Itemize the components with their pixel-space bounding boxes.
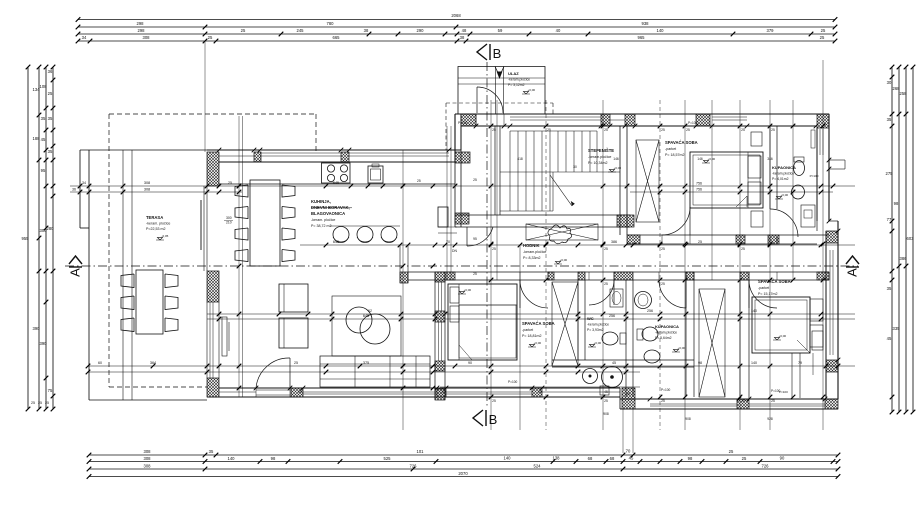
svg-text:379: 379	[767, 28, 775, 33]
bathroom2 door arc	[658, 272, 660, 280]
svg-text:390: 390	[33, 326, 41, 331]
svg-text:A: A	[845, 268, 860, 277]
north wall pier hatched	[696, 114, 710, 126]
svg-text:25: 25	[821, 28, 826, 33]
svg-text:95: 95	[41, 168, 46, 173]
svg-text:386: 386	[611, 240, 617, 244]
svg-text:938: 938	[642, 21, 650, 26]
laundry: big circle	[602, 367, 623, 388]
plant scribble	[548, 225, 572, 244]
svg-text:25: 25	[729, 449, 734, 454]
svg-text:35: 35	[887, 286, 892, 291]
svg-text:59: 59	[498, 28, 503, 33]
svg-text:-parket: -parket	[665, 147, 676, 151]
interior dim chain y319	[207, 318, 855, 320]
svg-text:P=22,53 m2: P=22,53 m2	[146, 227, 165, 231]
svg-text:25: 25	[45, 401, 49, 405]
svg-text:38: 38	[364, 28, 369, 33]
svg-text:140: 140	[751, 361, 757, 365]
svg-text:45: 45	[41, 137, 46, 142]
svg-text:25: 25	[742, 456, 747, 461]
bedroom3 closet wall	[791, 353, 793, 398]
section line B-B	[486, 62, 488, 408]
entrance door frame lines	[495, 67, 497, 115]
coffee table circles	[346, 307, 372, 333]
svg-text:25: 25	[417, 179, 421, 183]
rug	[332, 296, 401, 356]
svg-text:P= 10,34m2: P= 10,34m2	[588, 161, 607, 165]
laundry: square	[600, 386, 609, 395]
svg-text:524: 524	[534, 463, 542, 468]
south-east wall outer	[620, 408, 838, 410]
east wall pier hatched	[826, 231, 838, 243]
svg-text:25: 25	[661, 247, 665, 251]
svg-text:-keram.pločice: -keram.pločice	[772, 172, 794, 176]
svg-text:298: 298	[137, 21, 145, 26]
kitchen north wall inner	[219, 161, 455, 163]
TV panel	[222, 317, 227, 356]
south wall inner	[219, 387, 620, 389]
laundry: washing machine	[583, 369, 598, 384]
WC/bath south wall	[552, 359, 694, 361]
svg-text:+0,00: +0,00	[464, 288, 472, 292]
svg-text:308: 308	[144, 463, 152, 468]
svg-text:25: 25	[492, 247, 496, 251]
north wall pier hatched	[625, 114, 635, 126]
svg-text:KUPAONICA: KUPAONICA	[772, 165, 796, 170]
svg-text:25: 25	[661, 128, 665, 132]
svg-text:36: 36	[48, 69, 53, 74]
svg-text:-keram.pločice: -keram.pločice	[587, 323, 609, 327]
svg-text:335: 335	[893, 326, 901, 331]
living level mark	[458, 291, 466, 294]
bedroom3 bed	[752, 297, 810, 353]
svg-text:955: 955	[22, 236, 30, 241]
entrance canopy outline	[458, 67, 545, 115]
svg-text:25: 25	[228, 181, 232, 185]
west wall pier hatched	[207, 271, 219, 302]
svg-text:-parket: -parket	[758, 286, 769, 290]
entrance door arc	[477, 87, 503, 113]
south wall pier hatched	[437, 388, 446, 397]
bathroomTR door arc	[770, 209, 798, 237]
ULAZ level mark	[522, 91, 530, 94]
dining chair left	[235, 250, 248, 262]
svg-text:146: 146	[697, 157, 703, 161]
kitchen tall cabinet	[438, 207, 448, 227]
svg-text:P=100: P=100	[458, 121, 468, 125]
south wall pier hatched	[291, 388, 303, 397]
shower TR	[801, 205, 815, 227]
svg-text:25: 25	[31, 401, 35, 405]
svg-text:256: 256	[647, 309, 653, 313]
terrace chair	[121, 318, 134, 332]
svg-text:P= 38,72 m2: P= 38,72 m2	[311, 224, 331, 228]
svg-text:-keram.pločice: -keram.pločice	[508, 78, 530, 82]
svg-text:60: 60	[98, 361, 102, 365]
svg-text:+0,00: +0,00	[678, 346, 686, 350]
svg-text:280: 280	[47, 226, 55, 231]
svg-text:+0,00: +0,00	[534, 341, 542, 345]
svg-text:665: 665	[333, 35, 341, 40]
svg-text:25: 25	[604, 128, 608, 132]
svg-text:101: 101	[417, 449, 425, 454]
shaft X-braced (bedroom1/WC)	[552, 282, 578, 366]
svg-text:603: 603	[907, 236, 915, 241]
svg-text:25: 25	[547, 128, 551, 132]
svg-text:+0,00: +0,00	[781, 193, 789, 197]
svg-text:77: 77	[887, 217, 892, 222]
svg-text:-keram.pločice: -keram.pločice	[588, 155, 611, 159]
bottom dimension chain lines	[89, 454, 838, 456]
bedroom1 west wall window lines	[438, 282, 440, 311]
svg-text:P= 18,81m2: P= 18,81m2	[522, 334, 541, 338]
sofa	[320, 356, 430, 387]
terrace level mark	[156, 237, 164, 240]
svg-text:25: 25	[473, 272, 477, 276]
entrance arrow	[495, 67, 504, 77]
armchair 1	[279, 284, 308, 312]
svg-text:48: 48	[462, 28, 467, 33]
section marker A right	[846, 256, 859, 267]
north wall corner pier hatched	[817, 114, 829, 128]
bedroomTR door opening	[661, 235, 663, 244]
svg-text:308: 308	[144, 188, 150, 192]
shaft X-braced (bathroom/bedroom3)	[699, 289, 725, 397]
svg-text:-parket: -parket	[522, 328, 533, 332]
svg-text:95: 95	[473, 237, 477, 241]
stair block west wall	[454, 126, 456, 227]
west wall window	[206, 302, 208, 378]
svg-text:TERASA: TERASA	[146, 215, 163, 220]
svg-text:25: 25	[626, 392, 630, 396]
svg-text:308: 308	[143, 35, 151, 40]
sink TR	[792, 185, 805, 199]
svg-text:275: 275	[886, 171, 894, 176]
svg-text:25: 25	[604, 282, 608, 286]
svg-text:25: 25	[661, 399, 665, 403]
svg-text:140: 140	[228, 456, 236, 461]
step wall to north wall	[454, 114, 456, 162]
svg-text:+0,00: +0,00	[560, 258, 568, 262]
svg-text:P= 8,33m2: P= 8,33m2	[523, 256, 540, 260]
svg-text:25: 25	[741, 128, 745, 132]
south-east wall inner	[620, 398, 838, 400]
living room door arc	[256, 358, 290, 388]
svg-text:25: 25	[741, 399, 745, 403]
east wall inner lower	[825, 231, 827, 399]
left dimension chain lines	[27, 67, 29, 409]
dining chair left	[235, 185, 248, 197]
svg-text:2070: 2070	[458, 471, 468, 476]
svg-text:726: 726	[762, 463, 770, 468]
svg-text:35: 35	[209, 449, 214, 454]
svg-text:780: 780	[327, 21, 335, 26]
svg-text:-keram.pločice: -keram.pločice	[655, 331, 677, 335]
north wall pier hatched	[461, 114, 476, 126]
kitchen sink	[368, 166, 383, 183]
stair room east wall	[619, 126, 621, 235]
svg-text:98: 98	[894, 201, 899, 206]
svg-text:-keram. pločice: -keram. pločice	[311, 218, 335, 222]
entrance canopy lines	[458, 77, 545, 79]
svg-text:P= 3,93m2: P= 3,93m2	[587, 328, 604, 332]
svg-text:P= 5,64m2: P= 5,64m2	[655, 336, 672, 340]
svg-text:308: 308	[144, 181, 150, 185]
svg-text:35: 35	[48, 149, 53, 154]
bedroom1 west wall	[434, 272, 436, 400]
east wall pier hatched	[826, 360, 838, 372]
svg-text:298: 298	[138, 28, 146, 33]
svg-text:P=100: P=100	[688, 121, 698, 125]
svg-text:25: 25	[492, 399, 496, 403]
svg-text:P=100: P=100	[661, 388, 671, 392]
svg-text:25: 25	[538, 390, 542, 394]
kitchen island counter	[330, 225, 400, 227]
terrace chair	[121, 274, 134, 288]
svg-text:25: 25	[208, 35, 213, 40]
cooktop	[322, 163, 351, 183]
svg-text:25: 25	[771, 128, 775, 132]
entrance dashed overhang	[446, 102, 553, 104]
terrace outline	[80, 149, 207, 151]
svg-text:P= 4,01m2: P= 4,01m2	[772, 177, 789, 181]
bar stools	[333, 227, 349, 243]
west wall pier (corner, hatched)	[207, 152, 219, 186]
stair treads lower flight	[510, 172, 550, 211]
leader line from top chain	[204, 41, 206, 152]
svg-text:40: 40	[556, 28, 561, 33]
svg-text:245: 245	[297, 28, 305, 33]
terrace column lines	[122, 150, 124, 400]
terrace sliding door	[203, 186, 205, 271]
bedroomTR nightstand top	[751, 132, 762, 146]
svg-text:+0,00: +0,00	[528, 88, 536, 92]
kitchen counter right	[438, 226, 457, 228]
svg-text:30: 30	[887, 80, 892, 85]
svg-text:45: 45	[629, 455, 634, 460]
dashed roof overhang outline	[109, 113, 316, 115]
bedroom1 door arc	[519, 272, 521, 280]
svg-text:34: 34	[82, 35, 87, 40]
svg-text:256: 256	[609, 314, 615, 318]
svg-text:25: 25	[492, 128, 496, 132]
svg-text:25: 25	[698, 240, 702, 244]
armchair 2	[279, 318, 308, 348]
svg-text:928: 928	[767, 417, 773, 421]
kitchen north wall pier	[341, 152, 349, 162]
svg-text:25: 25	[604, 399, 608, 403]
svg-text:70: 70	[626, 449, 631, 454]
living room door threshold	[256, 389, 290, 391]
svg-text:756: 756	[696, 188, 702, 192]
stair treads upper flight	[510, 131, 590, 172]
svg-text:SPAVAĆA SOBA: SPAVAĆA SOBA	[758, 279, 791, 284]
east wall inner upper	[816, 128, 818, 221]
svg-text:726: 726	[410, 463, 418, 468]
svg-text:45: 45	[887, 336, 892, 341]
stair walk line	[550, 175, 572, 206]
wall opening ticks	[474, 124, 819, 129]
svg-text:36: 36	[72, 188, 76, 192]
svg-text:P=100: P=100	[810, 174, 819, 178]
svg-text:140: 140	[657, 28, 665, 33]
east wall window lines lower	[829, 250, 831, 355]
section marker B top	[477, 44, 490, 60]
svg-text:25: 25	[48, 91, 53, 96]
leaders to bottom chain at step	[622, 409, 624, 453]
svg-text:ULAZ: ULAZ	[508, 71, 519, 76]
south-east windows	[650, 403, 737, 405]
svg-text:908: 908	[685, 417, 691, 421]
terrace chair	[121, 296, 134, 310]
svg-text:B: B	[493, 46, 502, 61]
door from hall to living	[467, 227, 493, 246]
svg-text:35: 35	[887, 117, 892, 122]
WC washbasin	[610, 289, 623, 307]
hall north wall (right part)	[627, 234, 829, 236]
east wall outer lower	[837, 221, 839, 399]
north wall inner	[461, 125, 817, 127]
svg-text:SPAVAĆA SOBA: SPAVAĆA SOBA	[522, 321, 555, 326]
stair side walls	[494, 126, 496, 215]
svg-text:P= 3,12m2: P= 3,12m2	[508, 83, 525, 87]
dining chair right	[282, 250, 295, 262]
svg-text:98: 98	[698, 361, 702, 365]
bathroom2 east wall	[685, 272, 687, 397]
svg-text:386: 386	[900, 256, 908, 261]
section line A-A	[65, 265, 858, 267]
top dimension chain lines	[78, 19, 835, 21]
interior dim chain y372	[88, 371, 640, 373]
right dimension chain lines	[891, 67, 893, 412]
interior dim chain y186	[70, 185, 855, 187]
ventilation shaft X-braced (stair)	[636, 140, 659, 222]
svg-text:P=100: P=100	[771, 389, 781, 393]
svg-text:P= 18,57m2: P= 18,57m2	[665, 153, 684, 157]
svg-text:2068: 2068	[451, 13, 461, 18]
dining chair left	[235, 207, 248, 219]
svg-text:25: 25	[686, 128, 690, 132]
svg-text:756: 756	[696, 182, 702, 186]
east wall step at y221	[829, 220, 838, 222]
bathroomTR west wall	[769, 126, 771, 209]
south-east wall pier hatched	[737, 399, 749, 409]
svg-text:25: 25	[294, 361, 298, 365]
svg-text:68: 68	[610, 456, 615, 461]
svg-text:38: 38	[460, 35, 465, 40]
dining chair left	[235, 228, 248, 240]
svg-text:525: 525	[384, 456, 392, 461]
svg-text:90: 90	[468, 361, 472, 365]
bedroom3 door arc	[748, 272, 750, 280]
bathroom2 toilet	[642, 327, 658, 341]
section marker B bottom	[473, 410, 486, 426]
dining chair right	[282, 207, 295, 219]
bedroom3 west wall	[739, 280, 741, 399]
kitchen north wall outer	[207, 149, 461, 151]
svg-text:35: 35	[41, 116, 46, 121]
south wall pier hatched	[532, 388, 542, 397]
section marker A left	[69, 256, 82, 267]
svg-text:45: 45	[612, 361, 616, 365]
svg-text:210: 210	[226, 221, 232, 225]
svg-text:45: 45	[604, 390, 608, 394]
north wall outer	[455, 113, 829, 115]
svg-text:SPAVAĆA SOBA: SPAVAĆA SOBA	[665, 140, 698, 145]
bathroom2 bidet	[644, 350, 660, 363]
kitchen north wall end pier	[455, 152, 470, 163]
WC toilet	[602, 332, 618, 345]
stair room south wall	[455, 214, 630, 216]
svg-text:146: 146	[613, 157, 619, 161]
terrace table	[136, 270, 163, 334]
interior dim chain y192	[70, 191, 242, 193]
svg-text:188: 188	[33, 136, 41, 141]
svg-text:25: 25	[38, 401, 42, 405]
svg-text:B: B	[489, 412, 498, 427]
svg-text:290: 290	[417, 28, 425, 33]
svg-text:DN: DN	[452, 249, 457, 253]
svg-text:68: 68	[588, 456, 593, 461]
svg-text:25: 25	[820, 35, 825, 40]
kitchen window lines	[260, 155, 341, 157]
south-east corner pier hatched	[825, 399, 838, 409]
svg-text:25: 25	[604, 247, 608, 251]
svg-text:KUHINJA,: KUHINJA,	[311, 199, 331, 204]
svg-text:+0,00: +0,00	[614, 166, 622, 170]
svg-text:140: 140	[504, 455, 512, 460]
svg-text:HODNIK: HODNIK	[523, 243, 540, 248]
north wall pier hatched	[601, 114, 610, 126]
bedroomTR bed	[690, 152, 763, 208]
svg-text:A: A	[68, 268, 83, 277]
step pier hatched	[622, 388, 635, 409]
svg-text:P=100: P=100	[508, 380, 518, 384]
svg-text:-keram. pločice: -keram. pločice	[146, 222, 170, 226]
hall wardrobe X-braced	[526, 224, 598, 240]
bedroom1 inner bed line	[459, 304, 517, 306]
bedroomTR nightstand bottom	[751, 211, 763, 227]
interior dim chain y387	[440, 386, 640, 388]
south wall outer	[207, 396, 620, 398]
svg-text:25: 25	[298, 390, 302, 394]
toilet TR	[794, 161, 805, 176]
bathroom2 sink	[635, 292, 652, 309]
svg-text:258: 258	[900, 91, 908, 96]
east wall outer upper	[828, 114, 830, 221]
svg-text:965: 965	[638, 35, 646, 40]
kitchen north wall pier	[254, 152, 261, 162]
svg-text:BLAGOVAONICA: BLAGOVAONICA	[311, 211, 345, 216]
kitchen counter edge	[219, 183, 455, 185]
east window sill bump	[829, 159, 845, 161]
svg-text:98: 98	[688, 456, 693, 461]
svg-text:908: 908	[603, 412, 609, 416]
svg-text:98: 98	[271, 456, 276, 461]
svg-text:375: 375	[363, 361, 369, 365]
bedroom3 nightstand	[812, 331, 823, 350]
svg-text:+0,00: +0,00	[594, 341, 602, 345]
svg-text:+0,00: +0,00	[779, 334, 787, 338]
svg-text:308: 308	[144, 449, 152, 454]
east wall window lines upper	[819, 129, 821, 155]
svg-text:108: 108	[40, 84, 48, 89]
interior dim chain y245	[300, 244, 855, 246]
svg-text:STEPENIŠTE: STEPENIŠTE	[588, 148, 614, 153]
svg-text:35: 35	[48, 116, 53, 121]
svg-text:P=100: P=100	[779, 390, 788, 394]
